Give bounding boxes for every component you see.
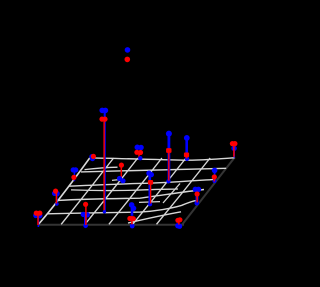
- stem S3 red marker: [71, 175, 76, 180]
- mesh second-surface row segment near S10 base: [139, 201, 160, 204]
- stem S1 red markers: [34, 211, 39, 216]
- axis box right front edge (dark gray diagonal): [182, 157, 235, 225]
- stem S16 red marker: [184, 153, 189, 158]
- stem S2 base blue tip: [55, 202, 59, 206]
- stem T2 blue markers: [117, 176, 122, 181]
- stem S12 base blue marker: [195, 201, 200, 206]
- stem S13 red stem: [213, 177, 215, 182]
- stem S10 blue stem: [149, 174, 152, 204]
- stem S8 blue stem: [131, 205, 134, 216]
- stem S3 red stem: [73, 177, 75, 180]
- stem S5 blue markers: [81, 212, 86, 217]
- stem S14 red stem: [233, 144, 235, 157]
- stem T1 red stem: [138, 153, 140, 158]
- stem S5 blue stem: [84, 215, 87, 227]
- tall stem S6 base blue marker: [103, 210, 106, 213]
- mesh diagonal 3: [109, 158, 162, 224]
- stem S4 at north corner: blue marker: [89, 154, 94, 159]
- stem S11 blue markers: [166, 131, 172, 137]
- stem S1 at west corner: blue stem: [37, 216, 39, 228]
- stem S14 at east corner: blue stem: [233, 149, 235, 158]
- stem S12 blue stem: [196, 190, 199, 203]
- stem S8 red stem: [131, 216, 133, 224]
- stem S2 blue marker: [52, 191, 57, 196]
- stem S13 base blue marker: [213, 179, 217, 183]
- stem S5 red marker: [83, 202, 88, 207]
- stem S8 blue markers: [129, 202, 135, 208]
- stem S13 blue stem: [214, 171, 216, 182]
- mesh diagonal 4: [133, 158, 186, 224]
- stem S8 red markers: [127, 216, 132, 221]
- stem S13 red marker: [212, 174, 217, 179]
- axis box bottom front edge (dark gray): [38, 224, 184, 226]
- floating pair S7 red marker: [125, 57, 131, 63]
- stem S12 red stem: [196, 194, 198, 202]
- tall stem S6 red markers: [99, 117, 104, 122]
- mesh row D: [58, 190, 204, 201]
- mesh diagonal 1: [61, 158, 113, 224]
- stem T2 red marker: [119, 163, 124, 168]
- stem S1 blue markers: [33, 213, 38, 218]
- mesh diagonal 5: [157, 158, 211, 224]
- stem S1 red stem: [37, 213, 39, 225]
- stem S10 red markers: [148, 180, 153, 185]
- stem S12 blue markers: [193, 187, 198, 192]
- stem S2 blue stem: [56, 193, 58, 204]
- mesh left edge diagonal: [38, 158, 89, 225]
- stem S13 blue marker: [212, 168, 218, 174]
- mesh second-surface row C2: [71, 189, 178, 191]
- mesh row C: [69, 179, 214, 186]
- stem S16 blue markers: [184, 135, 190, 141]
- stem S2 red marker: [53, 189, 58, 194]
- stem S11 red stem: [168, 150, 170, 180]
- mesh second-surface diagonal segment: [163, 184, 180, 204]
- stem S9 red markers: [175, 218, 180, 223]
- stem S9 at south corner: blue markers: [175, 223, 180, 228]
- stem S10 red stem: [150, 182, 152, 203]
- stem S12 red marker: [195, 191, 200, 196]
- stem S10 blue markers: [146, 171, 151, 176]
- stem S16 blue stem: [185, 138, 188, 159]
- stem T1 red markers: [134, 150, 139, 155]
- stem S9 red stem: [178, 220, 180, 224]
- mesh diagonal 2: [85, 158, 138, 224]
- mesh second-surface short edge near T2: [112, 179, 119, 182]
- mesh row E: [47, 200, 196, 213]
- stem S11 base blue marker: [166, 179, 170, 183]
- stem S4 red marker: [91, 154, 96, 159]
- stem S2 red stem: [55, 191, 57, 203]
- mesh top row A: [90, 158, 235, 160]
- stem T2 red stem: [120, 165, 122, 179]
- stem S16 red stem: [186, 155, 188, 159]
- stem S14 blue marker: [231, 146, 236, 151]
- tall stem S6 red stem: [103, 119, 105, 212]
- tall stem S6 blue stem: [104, 111, 106, 213]
- mesh row B: [81, 168, 226, 172]
- stem S14 red markers: [230, 141, 235, 146]
- stem T1 base blue marker: [138, 156, 142, 160]
- mesh bottom row F right-end lift: [128, 212, 181, 223]
- stem S3 blue stem: [73, 170, 75, 181]
- tall stem S6 blue markers: [99, 108, 105, 114]
- floating pair S7 blue marker: [125, 47, 131, 53]
- mesh second-surface row B2: [85, 167, 118, 169]
- stem T1 blue markers: [135, 145, 141, 151]
- stem S11 blue stem: [167, 134, 170, 181]
- stem S3 blue markers: [71, 167, 76, 172]
- stem S11 red marker: [166, 148, 171, 153]
- stem S5 red stem: [85, 204, 87, 225]
